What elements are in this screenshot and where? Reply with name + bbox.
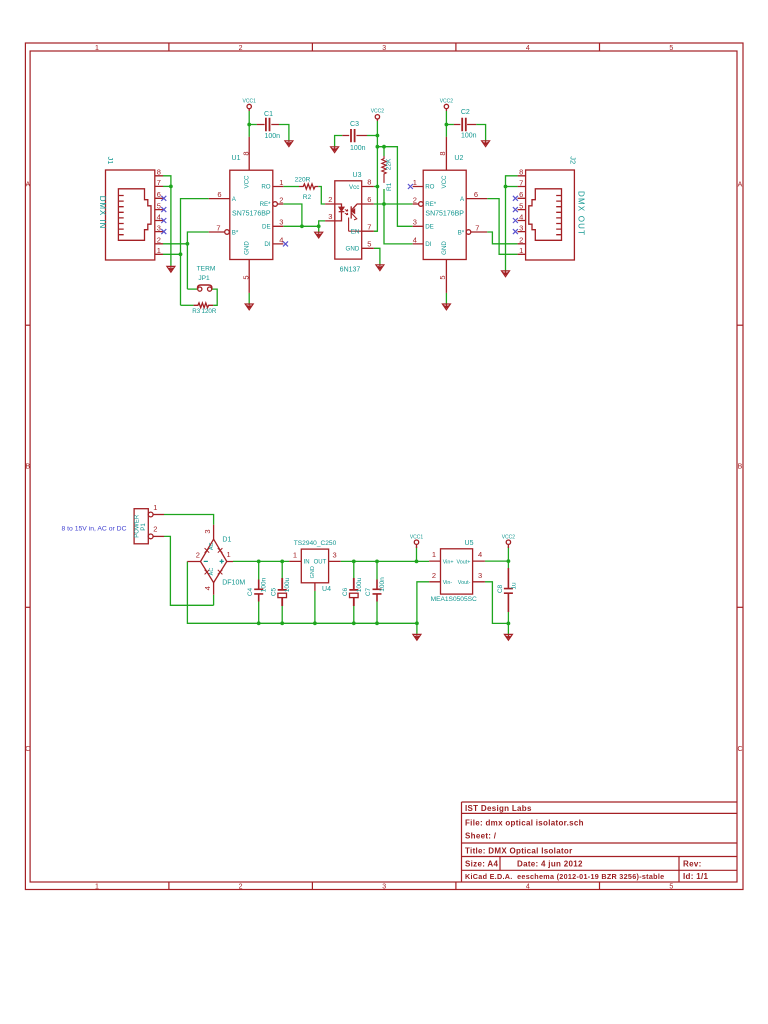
- svg-text:6: 6: [474, 190, 478, 199]
- svg-text:GND: GND: [346, 246, 360, 253]
- svg-text:4: 4: [526, 884, 530, 891]
- svg-text:IN: IN: [304, 560, 310, 566]
- svg-text:Id: 1/1: Id: 1/1: [683, 872, 708, 881]
- svg-text:4: 4: [526, 45, 530, 52]
- svg-text:TS2940_C250: TS2940_C250: [294, 540, 337, 547]
- svg-text:Vout-: Vout-: [458, 580, 471, 586]
- svg-text:DMX IN: DMX IN: [98, 196, 107, 229]
- svg-text:Vin+: Vin+: [443, 559, 454, 565]
- svg-text:VCC1: VCC1: [243, 98, 257, 104]
- svg-text:VCC2: VCC2: [371, 109, 385, 115]
- svg-text:EN: EN: [351, 228, 360, 235]
- svg-text:7: 7: [519, 178, 523, 187]
- svg-text:3: 3: [203, 529, 212, 533]
- svg-text:B: B: [25, 464, 30, 471]
- svg-text:4: 4: [279, 235, 283, 244]
- svg-text:R3: R3: [192, 308, 200, 315]
- svg-text:120R: 120R: [202, 308, 217, 315]
- svg-text:8: 8: [519, 168, 523, 177]
- svg-text:3: 3: [333, 550, 337, 559]
- svg-text:VCC2: VCC2: [440, 98, 454, 104]
- svg-text:1u: 1u: [511, 582, 518, 590]
- svg-text:R2: R2: [303, 194, 312, 201]
- svg-text:100n: 100n: [461, 132, 477, 139]
- svg-text:C4: C4: [247, 587, 254, 596]
- svg-text:AC: AC: [209, 568, 215, 576]
- svg-text:VCC2: VCC2: [502, 535, 516, 541]
- svg-text:RE*: RE*: [260, 201, 272, 208]
- svg-text:1: 1: [153, 503, 157, 512]
- svg-text:C2: C2: [461, 109, 470, 116]
- svg-text:7: 7: [475, 223, 479, 232]
- svg-text:U5: U5: [465, 540, 474, 547]
- svg-text:DE: DE: [425, 223, 434, 230]
- svg-text:KiCad E.D.A. eeschema (2012-0: KiCad E.D.A. eeschema (2012-01-19 BZR 32…: [465, 872, 664, 881]
- svg-text:5: 5: [438, 275, 447, 279]
- svg-text:C7: C7: [365, 587, 372, 596]
- svg-text:100n: 100n: [261, 577, 268, 592]
- svg-text:7: 7: [367, 222, 371, 231]
- svg-text:1: 1: [413, 178, 417, 187]
- svg-text:AC: AC: [209, 542, 215, 550]
- svg-text:J2: J2: [569, 156, 578, 164]
- svg-text:100u: 100u: [284, 577, 291, 592]
- svg-text:1: 1: [279, 178, 283, 187]
- svg-text:C: C: [25, 746, 30, 753]
- svg-text:P1: P1: [140, 523, 147, 531]
- svg-text:2: 2: [196, 551, 200, 560]
- svg-text:100n: 100n: [379, 577, 386, 592]
- svg-text:SN75176BP: SN75176BP: [232, 211, 271, 218]
- svg-text:6: 6: [367, 195, 371, 204]
- svg-text:SN75176BP: SN75176BP: [425, 211, 464, 218]
- svg-text:Rev:: Rev:: [683, 860, 702, 869]
- svg-text:GND: GND: [441, 241, 448, 255]
- svg-text:DE: DE: [262, 223, 271, 230]
- svg-text:2: 2: [519, 236, 523, 245]
- svg-text:2: 2: [239, 45, 243, 52]
- svg-text:1: 1: [519, 246, 523, 255]
- svg-text:J1: J1: [106, 157, 115, 165]
- svg-text:C1: C1: [264, 111, 273, 118]
- svg-text:File: dmx optical isolator.sch: File: dmx optical isolator.sch: [465, 819, 584, 828]
- svg-text:RO: RO: [425, 184, 434, 191]
- svg-text:DI: DI: [264, 241, 270, 248]
- svg-text:8 to 15V in, AC or DC: 8 to 15V in, AC or DC: [62, 526, 127, 533]
- svg-text:4: 4: [203, 586, 212, 590]
- svg-text:3: 3: [478, 571, 482, 580]
- svg-text:VCC1: VCC1: [410, 535, 424, 541]
- svg-text:4: 4: [519, 212, 523, 221]
- svg-text:B*: B*: [458, 230, 465, 237]
- svg-text:2: 2: [153, 525, 157, 534]
- svg-text:Date: 4 jun 2012: Date: 4 jun 2012: [517, 860, 583, 869]
- svg-text:U4: U4: [322, 586, 331, 593]
- svg-text:R1: R1: [386, 182, 393, 191]
- svg-text:1: 1: [95, 45, 99, 52]
- svg-text:2: 2: [432, 571, 436, 580]
- svg-text:C6: C6: [342, 587, 349, 596]
- svg-text:1: 1: [432, 550, 436, 559]
- svg-text:Vin-: Vin-: [443, 580, 453, 586]
- svg-text:8: 8: [438, 151, 447, 155]
- svg-text:2: 2: [413, 195, 417, 204]
- svg-text:8: 8: [367, 178, 371, 187]
- svg-text:MEA1S0505SC: MEA1S0505SC: [431, 596, 477, 603]
- svg-text:Title: DMX Optical Isolator: Title: DMX Optical Isolator: [465, 847, 573, 856]
- svg-text:6: 6: [519, 190, 523, 199]
- svg-text:B*: B*: [232, 230, 239, 237]
- svg-text:6: 6: [157, 190, 161, 199]
- svg-text:1: 1: [95, 884, 99, 891]
- svg-text:2: 2: [157, 236, 161, 245]
- svg-text:Size: A4: Size: A4: [465, 860, 498, 869]
- svg-text:100n: 100n: [350, 145, 366, 152]
- svg-text:5: 5: [242, 275, 251, 279]
- svg-text:8: 8: [157, 168, 161, 177]
- svg-text:U1: U1: [232, 155, 241, 162]
- svg-text:DF10M: DF10M: [222, 580, 245, 587]
- svg-text:4: 4: [478, 550, 482, 559]
- svg-text:C8: C8: [497, 584, 504, 593]
- svg-text:Sheet: /: Sheet: /: [465, 832, 497, 841]
- svg-text:VCC: VCC: [244, 175, 251, 189]
- svg-text:6N137: 6N137: [340, 266, 361, 273]
- svg-text:3: 3: [413, 218, 417, 227]
- svg-text:JP1: JP1: [198, 275, 210, 282]
- svg-text:VCC: VCC: [441, 175, 448, 189]
- svg-text:D1: D1: [222, 537, 231, 544]
- svg-text:5: 5: [669, 45, 673, 52]
- svg-text:C5: C5: [270, 587, 277, 596]
- svg-text:RO: RO: [261, 184, 270, 191]
- svg-text:DMX OUT: DMX OUT: [577, 191, 586, 235]
- svg-text:1: 1: [157, 246, 161, 255]
- svg-text:8: 8: [242, 151, 251, 155]
- svg-text:U3: U3: [353, 172, 362, 179]
- svg-text:IST Design Labs: IST Design Labs: [465, 804, 532, 813]
- svg-text:C3: C3: [350, 121, 359, 128]
- svg-text:3: 3: [279, 218, 283, 227]
- svg-text:RE*: RE*: [425, 201, 437, 208]
- svg-text:Vout+: Vout+: [456, 559, 470, 565]
- svg-text:1: 1: [293, 550, 297, 559]
- svg-text:OUT: OUT: [314, 560, 327, 566]
- svg-text:U2: U2: [454, 155, 463, 162]
- svg-text:TERM: TERM: [197, 265, 216, 272]
- svg-text:5: 5: [669, 884, 673, 891]
- svg-text:2: 2: [279, 195, 283, 204]
- svg-text:4: 4: [157, 212, 161, 221]
- svg-text:4: 4: [413, 235, 417, 244]
- svg-text:A: A: [25, 182, 30, 189]
- svg-text:Vcc: Vcc: [349, 184, 359, 191]
- svg-text:GND: GND: [310, 566, 316, 578]
- svg-text:3: 3: [382, 884, 386, 891]
- svg-text:A: A: [738, 182, 743, 189]
- svg-text:100n: 100n: [265, 133, 281, 140]
- svg-text:B: B: [738, 464, 743, 471]
- svg-text:DI: DI: [425, 241, 431, 248]
- svg-text:100u: 100u: [356, 577, 363, 592]
- svg-text:3: 3: [519, 223, 523, 232]
- svg-text:5: 5: [519, 201, 523, 210]
- svg-text:3: 3: [328, 212, 332, 221]
- svg-text:7: 7: [216, 223, 220, 232]
- svg-text:1: 1: [227, 550, 231, 559]
- svg-text:220R: 220R: [295, 177, 311, 184]
- svg-text:2: 2: [239, 884, 243, 891]
- svg-text:5: 5: [157, 201, 161, 210]
- svg-text:7: 7: [157, 178, 161, 187]
- svg-text:C: C: [737, 746, 742, 753]
- svg-text:5: 5: [367, 240, 371, 249]
- svg-text:22K: 22K: [385, 158, 392, 170]
- svg-text:6: 6: [217, 190, 221, 199]
- svg-text:2: 2: [328, 195, 332, 204]
- svg-text:3: 3: [382, 45, 386, 52]
- svg-text:GND: GND: [244, 241, 251, 255]
- svg-text:3: 3: [157, 223, 161, 232]
